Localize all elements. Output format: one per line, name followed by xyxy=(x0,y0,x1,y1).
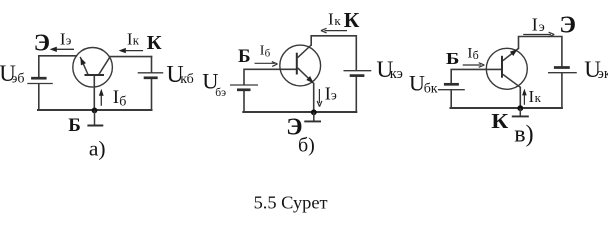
svg-text:бк: бк xyxy=(424,82,438,97)
svg-text:Б: Б xyxy=(68,115,81,136)
svg-text:эб: эб xyxy=(11,71,24,86)
svg-text:б): б) xyxy=(298,135,315,157)
svg-text:кэ: кэ xyxy=(390,66,403,82)
svg-text:Б: Б xyxy=(238,46,251,67)
svg-text:I: I xyxy=(529,87,535,106)
svg-text:I: I xyxy=(532,15,538,35)
svg-text:К: К xyxy=(491,109,509,133)
svg-text:б: б xyxy=(473,48,479,62)
svg-text:5.5 Сурет: 5.5 Сурет xyxy=(254,193,328,213)
svg-text:к: к xyxy=(535,90,542,105)
svg-text:К: К xyxy=(147,32,162,54)
svg-text:к: к xyxy=(133,33,140,48)
svg-text:э: э xyxy=(331,88,337,103)
svg-text:кб: кб xyxy=(180,72,194,87)
svg-text:I: I xyxy=(113,87,119,108)
svg-text:Э: Э xyxy=(34,31,50,57)
svg-text:Б: Б xyxy=(446,49,460,68)
svg-text:I: I xyxy=(328,10,334,29)
svg-text:К: К xyxy=(344,8,360,32)
svg-text:к: к xyxy=(334,13,341,28)
svg-text:бэ: бэ xyxy=(215,87,226,99)
svg-text:U: U xyxy=(409,71,425,96)
svg-text:Э: Э xyxy=(559,12,576,39)
svg-text:а): а) xyxy=(89,136,106,160)
svg-text:э: э xyxy=(66,33,72,48)
svg-text:в): в) xyxy=(514,122,533,148)
svg-text:б: б xyxy=(265,48,271,60)
svg-text:эк: эк xyxy=(598,66,608,82)
svg-text:б: б xyxy=(119,94,126,109)
svg-text:э: э xyxy=(539,20,545,35)
svg-text:I: I xyxy=(325,83,331,103)
